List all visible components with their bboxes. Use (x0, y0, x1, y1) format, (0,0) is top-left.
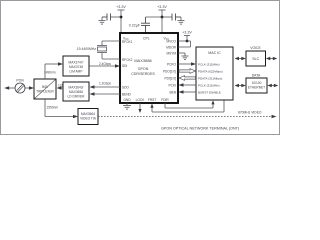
svg-text:VOICE: VOICE (250, 46, 261, 50)
svg-text:BEND: BEND (122, 93, 132, 97)
svg-text:MAX3656: MAX3656 (69, 90, 83, 94)
wire MSYM to ground (178, 53, 185, 56)
wire PCKO to MAC (178, 63, 192, 65)
svg-text:BURST ENABLE: BURST ENABLE (198, 90, 221, 94)
wire 1490nm to lim amp (45, 64, 59, 79)
junction dot on +3.3V rail 1 (120, 16, 123, 19)
svg-text:PCKI: PCKI (169, 84, 177, 88)
wire 1310nm from LD driver (60, 87, 63, 89)
wire PCKI from MAC (183, 84, 196, 86)
svg-text:1490nm: 1490nm (44, 71, 56, 75)
svg-text:MAX3748: MAX3748 (69, 65, 83, 69)
capacitor C2 (172, 14, 181, 21)
svg-text:PCLK (311MHz): PCLK (311MHz) (198, 83, 220, 87)
svg-text:2.4Gbps: 2.4Gbps (99, 62, 111, 66)
op limiting amplifier MAX3747/MAX3748 (63, 56, 89, 76)
wire lim amp to SDI (89, 65, 116, 67)
svg-text:GPON OPTICAL NETWORK TERMINAL: GPON OPTICAL NETWORK TERMINAL (ONT) (161, 127, 239, 131)
junction dot on +3.3V rail 2 (161, 16, 164, 19)
wire 870MHz video dashed output (98, 116, 272, 118)
svg-text:SDI: SDI (122, 64, 127, 68)
ground for C1 (99, 17, 106, 24)
svg-text:RFCK2: RFCK2 (122, 58, 133, 62)
svg-text:GND: GND (123, 98, 131, 102)
svg-text:GPON: GPON (138, 67, 149, 71)
svg-text:+3.3V: +3.3V (116, 5, 126, 9)
wire to bypass cap C1 (111, 16, 122, 18)
wire CPL rail (146, 16, 163, 18)
wire BEND to LD driver (94, 93, 120, 95)
connector optical PON (15, 83, 25, 93)
wire FDIR to MAC (165, 103, 213, 108)
wire PON to left edge (9, 87, 15, 89)
wire MAC to SLC bidirectional (238, 58, 244, 60)
crystal Y1 (97, 41, 120, 59)
svg-text:DATA: DATA (252, 74, 261, 78)
svg-text:MAX3747/: MAX3747/ (69, 61, 84, 65)
svg-text:+3.3V: +3.3V (157, 5, 167, 9)
ground MSYM (182, 56, 189, 60)
svg-text:+3.3V: +3.3V (182, 31, 192, 35)
wire ethernet external bidirectional (271, 85, 276, 87)
svg-text:MVCO: MVCO (166, 40, 176, 44)
svg-text:PCKO: PCKO (167, 63, 177, 67)
wire MAC to ethernet bidirectional (238, 85, 244, 87)
svg-text:LD DRIVER: LD DRIVER (67, 95, 85, 99)
op BiDi triplexer (34, 79, 56, 99)
wire SLC external bidirectional (269, 58, 274, 60)
svg-text:SDO: SDO (122, 86, 129, 90)
node +3.3V supply 2 (159, 10, 166, 33)
op laser driver MAX3643/MAX3656 (63, 82, 89, 101)
svg-text:PON: PON (16, 79, 24, 83)
svg-text:RFCK1: RFCK1 (122, 40, 133, 44)
svg-text:MAX3643/: MAX3643/ (69, 86, 84, 90)
svg-text:ETHERNET: ETHERNET (248, 86, 265, 90)
svg-text:10/100: 10/100 (252, 81, 262, 85)
op IC U1 GPON CDR/SERDES (120, 33, 178, 103)
capacitor C1 (102, 14, 111, 21)
wire LOCK output arrow (139, 103, 141, 110)
svg-text:1550nm: 1550nm (47, 106, 59, 110)
svg-text:MAX3664: MAX3664 (81, 112, 95, 116)
svg-text:LOCK: LOCK (136, 98, 146, 102)
svg-text:MAC IC: MAC IC (208, 51, 221, 55)
border frame (1, 1, 280, 135)
op MAC IC U2 (196, 47, 233, 100)
svg-text:MDOR: MDOR (166, 46, 176, 50)
svg-text:SLC: SLC (252, 57, 259, 61)
svg-text:19.4400MHz: 19.4400MHz (77, 47, 97, 51)
wire 1550nm to video TIA (45, 99, 74, 117)
svg-text:MSYM: MSYM (166, 52, 176, 56)
ground main IC GND pin (123, 103, 131, 109)
svg-text:CPL: CPL (143, 37, 150, 41)
node +3.3V supply 1 (118, 10, 125, 33)
svg-text:PCLK (311MHz): PCLK (311MHz) (198, 62, 220, 66)
svg-text:BiDi: BiDi (42, 85, 48, 89)
ground for C2 (178, 17, 185, 24)
wire PON to triplexer (25, 87, 30, 89)
wire FRST from MAC (152, 100, 224, 112)
wire SDO to LD driver (94, 86, 120, 88)
svg-text:870MHz VIDEO: 870MHz VIDEO (238, 111, 262, 115)
capacitor C3 0.22uF on CPL (141, 17, 150, 33)
svg-text:1.2Gbps: 1.2Gbps (99, 81, 111, 85)
svg-text:FDIR: FDIR (161, 98, 169, 102)
svg-text:PDI[3:0]: PDI[3:0] (164, 77, 176, 81)
op 10/100 ETHERNET box (246, 78, 267, 93)
svg-text:0.22µF: 0.22µF (129, 24, 141, 28)
svg-text:BEN: BEN (169, 91, 176, 95)
wire BEN from MAC (183, 91, 196, 93)
svg-text:PDATA (311Mbps): PDATA (311Mbps) (198, 76, 222, 80)
bus PDO to MAC (hollow arrow) (179, 69, 196, 74)
svg-text:FRST: FRST (148, 98, 156, 102)
svg-text:PDATA (622Mbps): PDATA (622Mbps) (198, 69, 223, 73)
svg-text:VIDEO TIA: VIDEO TIA (80, 117, 97, 121)
svg-text:CDR/SERDES: CDR/SERDES (131, 72, 155, 76)
junction dot MVCO (186, 40, 189, 43)
op SLC box (246, 51, 266, 66)
svg-text:PDO[3:0]: PDO[3:0] (163, 70, 176, 74)
svg-text:MAX3886: MAX3886 (134, 58, 152, 63)
svg-text:LIM AMP: LIM AMP (70, 70, 83, 74)
op video TIA MAX3664 (78, 109, 98, 125)
wire to bypass cap C2 (162, 16, 172, 18)
svg-text:TRIPLEXER: TRIPLEXER (36, 90, 54, 94)
wire MVCO/MDOR tie (178, 41, 191, 47)
bus PDI from MAC (hollow arrow) (179, 76, 196, 81)
node +3.3V supply 3 (MVCO) (184, 36, 190, 42)
